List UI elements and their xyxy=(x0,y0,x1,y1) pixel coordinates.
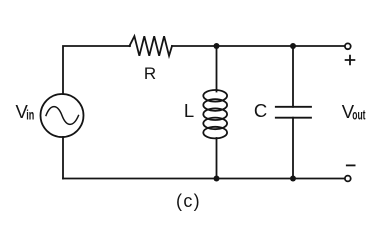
plus sign xyxy=(346,56,355,65)
wire resistor to node A xyxy=(172,45,217,47)
svg-text:in: in xyxy=(26,109,34,123)
resistor R xyxy=(129,36,172,56)
inductor L coil xyxy=(203,90,227,138)
capacitor C top lead xyxy=(292,46,294,107)
svg-text:(c): (c) xyxy=(176,191,201,211)
wire inductor bottom lead xyxy=(216,138,218,179)
label Vin xyxy=(16,101,35,123)
svg-text:out: out xyxy=(352,109,365,123)
capacitor C bottom lead xyxy=(292,118,294,179)
voltage source Vin circle xyxy=(41,94,84,137)
label Vout xyxy=(342,101,366,123)
svg-text:L: L xyxy=(184,100,194,121)
node A junction dot (top of L) xyxy=(214,43,220,49)
svg-text:C: C xyxy=(254,100,267,121)
wire inductor top lead xyxy=(216,46,218,92)
plus terminal (open circle) xyxy=(345,43,351,49)
node B junction dot (top of C) xyxy=(290,43,296,49)
junction dot bottom of C xyxy=(290,176,296,182)
minus terminal (open circle) xyxy=(345,176,351,182)
wire node A to node B xyxy=(217,45,294,47)
junction dot bottom of L xyxy=(214,176,220,182)
wire from Vin top up and across to resistor xyxy=(63,46,130,94)
wire Vin bottom lead xyxy=(62,137,64,179)
svg-text:R: R xyxy=(144,64,156,83)
bottom wire xyxy=(63,178,344,180)
capacitor C plates xyxy=(276,107,311,118)
minus sign xyxy=(347,164,355,166)
wire node B to plus terminal xyxy=(293,45,344,47)
sine wave inside source xyxy=(46,107,79,125)
